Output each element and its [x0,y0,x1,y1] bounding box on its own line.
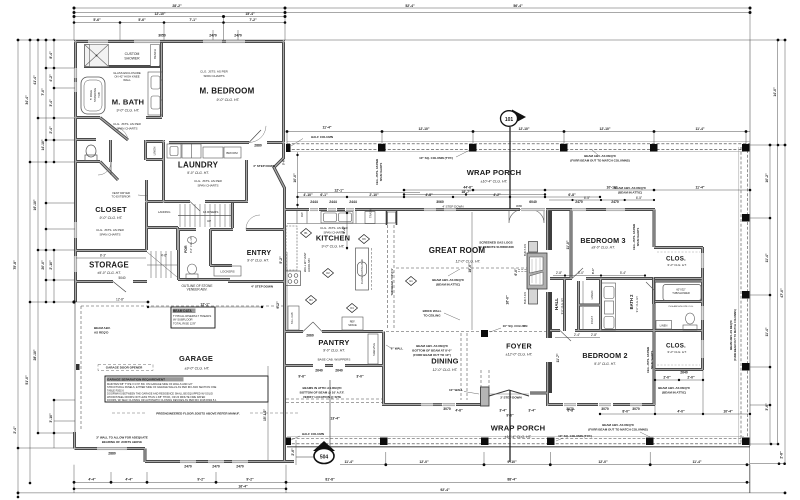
svg-text:BEAM ABV. AS REQ'D: BEAM ABV. AS REQ'D [729,320,733,349]
svg-text:DINING: DINING [431,357,458,366]
svg-text:DOORS, W/ SELF CLOSING OR AUTO: DOORS, W/ SELF CLOSING OR AUTOMATIC CLOS… [107,398,217,402]
garage interior dims [148,306,262,308]
svg-text:THIN BEAM, TOP @ 9': THIN BEAM, TOP @ 9' [390,268,394,296]
svg-text:6'-1": 6'-1" [320,193,328,197]
svg-text:BEAM ABV. AS REQ'D: BEAM ABV. AS REQ'D [602,423,634,427]
fireplace [518,242,547,305]
garage opener box [98,365,153,371]
pdr walls [178,229,232,280]
svg-text:10'-0": 10'-0" [293,173,297,183]
svg-text:2'-8": 2'-8" [780,451,784,459]
svg-text:16'-0": 16'-0" [506,295,510,305]
svg-text:88'-4": 88'-4" [507,477,517,481]
svg-text:D4: D4 [350,306,354,310]
svg-text:2'-0": 2'-0" [663,376,671,380]
svg-text:2'-8": 2'-8" [556,271,562,275]
svg-text:P&S ARCH/SLOPE CLG.: P&S ARCH/SLOPE CLG. [669,305,694,308]
svg-text:BEAM ABV. AS REQ'D: BEAM ABV. AS REQ'D [584,154,616,158]
wc toilet [85,145,97,161]
storage south wall [75,280,147,283]
svg-text:9'-6": 9'-6" [298,375,306,379]
svg-text:M. BATH: M. BATH [112,98,144,107]
svg-text:BEARING OF JOISTS ABOVE: BEARING OF JOISTS ABOVE [102,440,142,444]
bath wc walls [75,140,111,163]
svg-text:LAUNDRY: LAUNDRY [178,161,219,170]
svg-text:LINEN: LINEN [590,291,594,300]
svg-text:4'-2": 4'-2" [493,193,501,197]
svg-text:BUILT-INS: BUILT-INS [523,292,527,304]
garage separation box [105,376,268,402]
svg-text:3060: 3060 [436,200,444,204]
svg-text:6040: 6040 [529,200,537,204]
bathtub [81,77,105,114]
great room top dim dots [403,189,406,192]
svg-text:TO EXTERIOR: TO EXTERIOR [112,195,131,199]
svg-text:TALL CAB: TALL CAB [291,312,294,324]
svg-text:±12'-0" CLG. HT.: ±12'-0" CLG. HT. [506,353,533,357]
svg-text:BEAM ABV. AS REQ'D: BEAM ABV. AS REQ'D [432,278,464,282]
garage east wall low [283,302,286,462]
left dots [17,39,20,42]
svg-text:9'-0" CLG. HT.: 9'-0" CLG. HT. [322,245,345,249]
svg-text:2470: 2470 [611,200,619,204]
svg-text:2660: 2660 [306,334,314,338]
bottom dots [384,463,387,466]
interior dashed beams [81,225,547,430]
svg-text:LANDING: LANDING [158,210,170,214]
stairs up treads [178,204,232,227]
top dim lines [74,7,750,9]
pdr fixtures [186,237,198,280]
vanity w 2 sinks [148,72,163,115]
svg-text:BEAM ABV. AS REQ'D: BEAM ABV. AS REQ'D [416,344,448,348]
svg-text:3070: 3070 [566,407,574,411]
svg-text:4'-8": 4'-8" [425,193,433,197]
svg-text:SPAN CHARTS: SPAN CHARTS [99,233,120,237]
svg-text:18'-7": 18'-7" [461,190,471,194]
dining west wall [382,332,385,406]
svg-text:9'-2": 9'-2" [276,301,280,309]
rear patio beam [286,398,383,400]
svg-text:VERIFY LOCATION @ SITE: VERIFY LOCATION @ SITE [303,395,341,399]
porch top row dots [286,130,289,133]
svg-text:REF.: REF. [350,320,356,324]
svg-text:WRAP PORCH: WRAP PORCH [467,168,522,177]
svg-text:SHELVING: SHELVING [372,343,376,356]
svg-text:9'-0" CLG. HT.: 9'-0" CLG. HT. [560,297,564,314]
section marker 504 [296,380,335,464]
svg-text:9'-0" CLG. HT.: 9'-0" CLG. HT. [594,362,616,366]
svg-text:GREAT ROOM: GREAT ROOM [429,246,486,255]
svg-text:10" SQ. COLUMN: 10" SQ. COLUMN [503,324,528,328]
svg-text:12'-10": 12'-10" [599,127,610,131]
svg-text:2470: 2470 [212,465,220,469]
bath south wall [74,43,162,118]
svg-text:7'-0": 7'-0" [41,88,45,96]
svg-text:TUB: TUB [97,92,101,98]
master bedroom south wall [169,141,285,144]
svg-text:5'-6": 5'-6" [138,18,146,22]
svg-text:HALL: HALL [554,298,559,310]
walls gray centers [74,40,703,462]
range [286,271,301,286]
svg-text:5'-6": 5'-6" [93,18,101,22]
svg-text:4'-2": 4'-2" [49,74,53,82]
hall partition x565 [563,279,566,332]
svg-text:41'-4": 41'-4" [33,75,37,85]
svg-text:9'-0" CLG. HT.: 9'-0" CLG. HT. [100,216,123,220]
svg-text:LINEN: LINEN [660,324,668,328]
svg-text:2640: 2640 [680,371,688,375]
svg-text:9'-0" CLG. HT.: 9'-0" CLG. HT. [117,109,140,113]
foyer cased opening [460,333,462,400]
svg-text:BEAM ABV. AS REQ'D: BEAM ABV. AS REQ'D [658,386,690,390]
rotated dim texts left [13,51,784,459]
svg-text:2'-4": 2'-4" [13,426,17,434]
svg-text:5'-4": 5'-4" [620,271,626,275]
svg-text:3'-4": 3'-4" [499,409,507,413]
pantry south wall [284,364,383,367]
svg-text:BASE CAB. W/UPPERS: BASE CAB. W/UPPERS [318,358,351,362]
svg-text:BATH 2: BATH 2 [629,294,634,309]
wrap porch right dashed band [740,147,742,443]
svg-text:2'-10": 2'-10" [49,260,53,270]
svg-text:FOYER: FOYER [506,342,532,351]
interior dots [147,306,149,308]
svg-text:3070: 3070 [632,407,640,411]
svg-text:WALL MT VENT: WALL MT VENT [303,252,307,272]
svg-text:4'-4": 4'-4" [88,477,96,481]
right dim lines [769,145,771,444]
bed3 south wall [550,277,655,280]
shower walls [84,65,160,68]
svg-text:9'-0" CLG. HT.: 9'-0" CLG. HT. [667,350,687,354]
svg-text:2'-6": 2'-6" [291,448,295,456]
svg-text:6'-8": 6'-8" [568,193,576,197]
wc door arc [98,162,111,175]
svg-text:CLG. JSTS. AS PER: CLG. JSTS. AS PER [646,347,650,373]
svg-text:B1: B1 [304,231,308,235]
storage door [113,282,126,293]
svg-text:PREENGINEERED FLOOR JOISTS ABO: PREENGINEERED FLOOR JOISTS ABOVE REFER M… [156,412,240,416]
svg-text:8'-3": 8'-3" [100,254,106,258]
svg-text:12'-0": 12'-0" [598,460,608,464]
svg-text:BENCH: BENCH [153,49,157,59]
svg-text:FLUSH EATING BAR: FLUSH EATING BAR [360,259,364,284]
linen by laundry [146,158,164,161]
svg-text:(BEAM IN ATTIC): (BEAM IN ATTIC) [662,391,686,395]
island [356,248,372,290]
svg-text:COAT: COAT [590,316,594,324]
vent dryer leader [138,195,148,196]
room labels [89,49,687,439]
hall linen/coat shelves [582,281,584,330]
svg-text:BEAM ABV.: BEAM ABV. [94,326,111,330]
svg-text:16'-4": 16'-4" [238,484,248,488]
svg-text:D2: D2 [326,271,330,275]
foyer column dashes up [480,370,482,387]
svg-text:11'-4": 11'-4" [322,126,331,130]
beam data box [171,307,215,328]
porch column bottom row [742,438,750,446]
svg-text:BROOM: BROOM [226,151,238,155]
svg-text:BOTTOM OF BEAM @ 10' A.F.F.: BOTTOM OF BEAM @ 10' A.F.F. [300,391,345,395]
svg-text:GARAGE: GARAGE [179,354,213,363]
svg-text:9'-0" CLG. HT.: 9'-0" CLG. HT. [323,349,345,353]
svg-text:WRAP PORCH: WRAP PORCH [491,424,546,433]
svg-text:TRASH: TRASH [369,209,373,218]
svg-text:9'-0" CLG. HT.: 9'-0" CLG. HT. [217,98,240,102]
tub nook divider [652,277,655,304]
svg-text:2880: 2880 [254,144,262,148]
svg-text:4" STEP DOWN: 4" STEP DOWN [253,164,275,168]
svg-text:14'-0": 14'-0" [773,87,777,97]
svg-text:2'-4": 2'-4" [49,126,53,134]
window hatches in walls [74,40,704,463]
porch floor edge bottom [287,446,750,448]
svg-text:3'-0": 3'-0" [356,375,364,379]
main top wall kitchen/great/bed3 [285,208,655,211]
svg-text:SPAN CHARTS: SPAN CHARTS [197,184,218,188]
svg-text:4'-6": 4'-6" [161,254,167,258]
svg-text:AS REQ'D: AS REQ'D [94,331,109,335]
svg-text:±10'-4" CLG. HT.: ±10'-4" CLG. HT. [481,180,508,184]
svg-text:(FURR BEAM OUT TO MATCH COLUMN: (FURR BEAM OUT TO MATCH COLUMNS) [570,159,630,163]
svg-text:6'-5": 6'-5" [584,196,590,200]
svg-text:12'-10": 12'-10" [418,127,429,131]
hall/bath south wall [550,329,655,332]
svg-text:5'-0": 5'-0" [578,271,584,275]
closet shelf dashes [657,251,700,253]
custom shower pan [85,45,109,67]
closet east wall [145,180,148,250]
entry south wall [228,280,285,283]
svg-text:11'-4": 11'-4" [695,186,704,190]
svg-text:CLG. JSTS. AS PER: CLG. JSTS. AS PER [96,228,125,232]
shower bench [151,45,160,67]
left exterior wall [74,40,77,302]
svg-text:3" WALL TO ALLOW FOR ADEQUATE: 3" WALL TO ALLOW FOR ADEQUATE [96,436,148,440]
hall door leaves [190,202,655,342]
linen/coat closets walls [579,279,601,331]
svg-text:5'-4": 5'-4" [342,226,346,234]
svg-text:8'-4": 8'-4" [49,51,53,59]
svg-text:2444: 2444 [310,200,318,204]
svg-text:10" SQ. COLUMN (TYP.): 10" SQ. COLUMN (TYP.) [419,156,453,160]
svg-text:3070: 3070 [443,407,451,411]
svg-text:BEAM DATA: BEAM DATA [173,309,192,313]
front door leaves [489,390,529,396]
svg-text:BOTTOM OF BEAM AT 8'-0": BOTTOM OF BEAM AT 8'-0" [412,349,452,353]
exterior walls dark layer [74,40,703,462]
svg-text:3070: 3070 [601,407,609,411]
svg-text:28'-2": 28'-2" [172,4,182,8]
svg-text:PDR: PDR [184,245,188,253]
svg-text:75'-8": 75'-8" [13,260,17,270]
svg-text:44'-6": 44'-6" [463,186,473,190]
laundry counter boxes [167,144,241,158]
svg-text:6'-0": 6'-0" [514,268,518,276]
interior dims kitchen [286,252,288,330]
svg-text:SPAN CHARTS: SPAN CHARTS [636,227,640,246]
svg-text:CLOS.: CLOS. [666,256,686,263]
svg-text:4' STEP DOWN: 4' STEP DOWN [442,205,463,209]
svg-text:10'-10": 10'-10" [606,186,617,190]
svg-text:14'-10": 14'-10" [41,139,45,150]
svg-text:11'-7": 11'-7" [556,353,560,362]
svg-text:6'-1": 6'-1" [591,267,595,274]
svg-text:51'-0": 51'-0" [25,375,29,385]
svg-text:12'-10": 12'-10" [154,12,165,16]
boundary line right [749,40,751,446]
svg-text:STORAGE: STORAGE [89,261,129,270]
svg-text:7'-1": 7'-1" [189,18,197,22]
svg-text:ENTRY: ENTRY [247,250,272,257]
svg-text:3'-4": 3'-4" [528,409,536,413]
svg-text:16'-10": 16'-10" [33,199,37,210]
great room top dims [404,189,750,191]
svg-text:2470: 2470 [234,34,242,38]
svg-text:W/ REMOTE SURROUND: W/ REMOTE SURROUND [478,245,514,249]
porch column right row [742,214,750,222]
svg-text:HALF COLUMN: HALF COLUMN [311,135,333,139]
entry lockers [214,266,241,276]
kitchen west counter [286,226,297,270]
svg-text:(FURR BEAM OUT TO 10"): (FURR BEAM OUT TO 10") [413,353,451,357]
garage front walls [75,432,295,462]
svg-text:2470: 2470 [184,465,192,469]
svg-text:CLG. JSTS. AS PER: CLG. JSTS. AS PER [632,224,636,250]
svg-text:11'-4": 11'-4" [765,327,769,336]
diamond symbols [301,229,417,313]
dims bedroom2 right [655,379,703,381]
svg-text:504: 504 [320,455,329,461]
svg-text:BEDROOM 3: BEDROOM 3 [580,236,625,245]
svg-text:11'-4": 11'-4" [344,460,353,464]
svg-text:15'-1/2": 15'-1/2" [263,409,267,421]
svg-text:2880: 2880 [108,452,116,456]
svg-text:12'-0" CLG. HT.: 12'-0" CLG. HT. [433,368,458,372]
entry door arc [246,215,260,230]
svg-text:81'-8": 81'-8" [325,477,335,481]
bed3/hall/bed2 west wall [549,210,552,394]
svg-text:KITCHEN: KITCHEN [316,234,350,243]
ref space [342,317,363,330]
bath2 tub [663,285,701,301]
svg-text:34'-4": 34'-4" [25,95,29,105]
svg-text:DW: DW [300,212,304,217]
svg-text:8'-0": 8'-0" [622,410,630,414]
svg-text:6" WALL: 6" WALL [391,347,404,351]
front entry pillar [481,387,490,406]
foyer door stub [530,392,547,395]
svg-text:56'-4": 56'-4" [513,4,523,8]
svg-text:(BEAM IN ATTIC): (BEAM IN ATTIC) [618,191,642,195]
svg-text:9'-0" CLG. HT.: 9'-0" CLG. HT. [667,263,687,267]
svg-text:B3: B3 [309,298,313,302]
wrap porch bottom dashed band [287,438,750,440]
svg-text:13'-4": 13'-4" [330,417,340,421]
svg-text:9'-0" CLG. HT.: 9'-0" CLG. HT. [189,236,193,253]
svg-text:12'-8": 12'-8" [116,298,124,302]
laundry walls [145,140,248,203]
svg-text:9'-2": 9'-2" [197,477,205,481]
svg-text:SPAN CHARTS: SPAN CHARTS [379,162,383,181]
svg-text:9'-0" CLG. HT.: 9'-0" CLG. HT. [187,171,209,175]
great room/dining beam dashed [386,331,481,333]
svg-text:BRICK WALL: BRICK WALL [423,309,442,313]
master block top wall [74,40,285,43]
master bedroom east wall [282,40,285,148]
svg-text:SPAN CHARTS: SPAN CHARTS [650,350,654,369]
svg-text:3050: 3050 [158,34,166,38]
svg-text:SPAN CHARTS: SPAN CHARTS [116,127,137,131]
svg-text:3'-6": 3'-6" [765,403,769,411]
svg-text:4" STEP DOWN: 4" STEP DOWN [251,285,273,289]
glass wall [109,66,160,68]
svg-text:±10'-4" CLG. HT.: ±10'-4" CLG. HT. [505,435,532,439]
svg-text:3'-4": 3'-4" [49,99,53,107]
svg-text:10" SQ. COLUMN (TYP.): 10" SQ. COLUMN (TYP.) [558,434,592,438]
svg-text:9'-0" CLG. HT.: 9'-0" CLG. HT. [247,259,269,263]
svg-text:12'-1": 12'-1" [334,189,344,193]
porch top dim row [287,131,750,133]
svg-text:3'-10": 3'-10" [49,413,53,423]
svg-text:60"X32": 60"X32" [676,288,685,292]
svg-text:3080: 3080 [516,204,523,208]
svg-text:4'-6": 4'-6" [455,409,463,413]
bath2 linen [656,321,672,330]
svg-text:4'-10": 4'-10" [303,193,313,197]
svg-text:9'-0" CLG. HT.: 9'-0" CLG. HT. [635,295,639,312]
svg-text:(FURR BEAM OUT TO MATCH COLUMN: (FURR BEAM OUT TO MATCH COLUMNS) [588,428,648,432]
svg-text:HALF COLUMN: HALF COLUMN [302,432,324,436]
svg-text:17 TREADS: 17 TREADS [196,314,211,318]
bath diagonals [100,118,128,181]
great room east wall [546,210,549,407]
great room beam dashed [396,267,527,269]
closet bottom (bed2) walls [655,330,703,370]
wrap porch top dashed band [287,144,750,444]
svg-text:SPACE: SPACE [348,323,357,327]
svg-text:GARAGE SEPARATION REQUIREMENT: GARAGE SEPARATION REQUIREMENT [107,378,165,382]
svg-text:±9'-0" CLG. HT.: ±9'-0" CLG. HT. [185,367,210,371]
svg-text:92'-4": 92'-4" [440,488,450,492]
garage beam dashed rect [81,306,283,430]
svg-text:LINEN: LINEN [153,147,157,156]
laundry door arc [249,126,266,143]
svg-text:2470: 2470 [209,34,217,38]
svg-text:2444: 2444 [329,200,337,204]
pantry shelving [368,334,378,364]
svg-text:5'-6": 5'-6" [282,158,286,165]
svg-text:CLG. JSTS. AS PER: CLG. JSTS. AS PER [375,159,379,185]
bottom dim rows [340,464,750,466]
svg-text:D6: D6 [362,237,366,241]
svg-text:(BEAM IN ATTIC): (BEAM IN ATTIC) [436,283,460,287]
svg-text:18'-6": 18'-6" [468,263,472,273]
svg-text:UP: UP [207,219,211,223]
svg-text:M. BEDROOM: M. BEDROOM [200,87,255,96]
svg-text:12'-10": 12'-10" [518,127,529,131]
kitchen top counter [287,211,388,224]
bath2 tub nook walls [654,279,703,331]
svg-text:HOOD ABV: HOOD ABV [307,258,311,272]
svg-text:5040: 5040 [118,276,125,280]
svg-text:9'-2": 9'-2" [246,477,254,481]
kitchen/great divider dashed [387,225,389,330]
tall cab [288,306,299,330]
